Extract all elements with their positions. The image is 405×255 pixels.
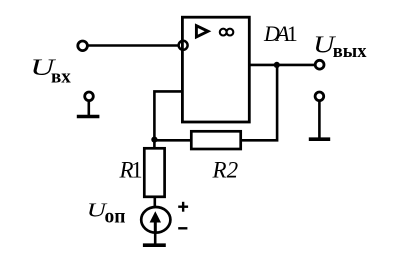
output node junction dot (274, 62, 280, 68)
op-amp DA1 amplifier triangle symbol (196, 26, 208, 37)
output terminal Uвых (315, 60, 324, 69)
wire source Uоп to ground (154, 233, 157, 245)
voltage source Uоп circle (141, 207, 170, 233)
wire R2 to output node (241, 65, 277, 140)
svg-text:вых: вых (333, 42, 367, 62)
ground terminal (output side) (309, 92, 330, 139)
resistor R2 (191, 131, 240, 149)
svg-text:вх: вх (51, 66, 71, 87)
svg-text:оп: оп (105, 207, 126, 228)
node A junction dot (151, 137, 157, 143)
wire node A to R1 (153, 140, 156, 149)
op-amp DA1 body (182, 17, 249, 122)
voltage source arrow (150, 211, 161, 231)
svg-text:R1: R1 (119, 158, 143, 183)
wire non-inverting input to node A (154, 91, 182, 140)
wire op-amp output to terminal (249, 64, 315, 67)
resistor R1 (144, 148, 164, 197)
label - (source negative) (178, 227, 187, 229)
ground terminal (input side) (77, 92, 100, 117)
input terminal Uвх (78, 41, 88, 51)
inverting input inversion circle on op-amp edge (179, 41, 188, 50)
label + (source positive) (178, 202, 188, 212)
svg-text:DA1: DA1 (263, 21, 297, 46)
svg-text:R2: R2 (212, 158, 239, 183)
wire input terminal to inverting input (87, 44, 178, 47)
op-amp DA1 infinity gain symbol (220, 29, 234, 36)
ground bar (below source) (143, 243, 166, 247)
wire R1 to source Uоп (154, 197, 157, 208)
wire node A to R2 (154, 139, 191, 142)
